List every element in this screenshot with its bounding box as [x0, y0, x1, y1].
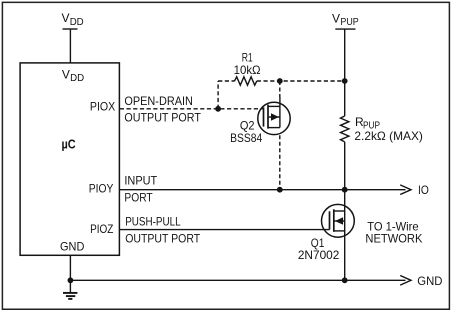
svg-text:DD: DD — [70, 17, 84, 28]
R1 value labels — [234, 50, 261, 77]
TO 1-Wire NETWORK annotation — [365, 219, 422, 245]
svg-text:µC: µC — [62, 136, 77, 151]
svg-text:V: V — [62, 11, 70, 25]
svg-text:INPUT: INPUT — [124, 174, 157, 188]
svg-text:PIOX: PIOX — [90, 100, 115, 114]
svg-text:10kΩ: 10kΩ — [234, 63, 261, 77]
wire: VPUP rail from RPUP down to IO net — [344, 142, 346, 190]
svg-text:DD: DD — [70, 73, 84, 84]
RPUP value labels — [354, 115, 423, 143]
PUSH-PULL OUTPUT PORT annotation — [125, 215, 201, 246]
svg-text:PUSH-PULL: PUSH-PULL — [125, 215, 181, 229]
svg-text:PUP: PUP — [340, 17, 358, 28]
Q2 reference labels — [230, 118, 262, 145]
wire: PIOX open-drain dashed net to Q2 gate — [120, 108, 263, 110]
svg-text:GND: GND — [60, 239, 85, 253]
svg-text:GND: GND — [417, 274, 443, 288]
svg-text:BSS84: BSS84 — [230, 131, 262, 145]
svg-text:V: V — [62, 67, 70, 81]
wire: dashed R1 net (right of resistor) to VPUP rail — [257, 80, 345, 82]
VDD supply symbol — [63, 29, 78, 63]
VPUP supply symbol — [335, 29, 355, 116]
VPUP label — [332, 11, 359, 28]
Q1 reference labels — [298, 236, 340, 262]
node: R1 / VPUP rail junction — [342, 78, 348, 84]
INPUT PORT annotation — [124, 174, 157, 205]
wire: dashed R1 net (left of resistor) — [218, 80, 234, 82]
wire: Q1 drain from IO net / source to GND net — [344, 190, 346, 281]
node: Q2 drain / IO junction — [277, 187, 283, 193]
microcontroller µC block — [20, 63, 119, 255]
svg-text:OUTPUT PORT: OUTPUT PORT — [125, 232, 201, 246]
transistor Q2 (BSS84 p-channel MOSFET) — [258, 97, 290, 135]
node: PIOX / riser junction — [215, 106, 221, 112]
wire: dashed Q2 source lead (up to R1 net) — [279, 81, 281, 97]
svg-text:OPEN-DRAIN: OPEN-DRAIN — [124, 94, 192, 108]
svg-text:PIOZ: PIOZ — [90, 222, 113, 236]
svg-text:IO: IO — [418, 183, 429, 197]
OPEN-DRAIN OUTPUT PORT annotation — [124, 94, 201, 125]
resistor R1 — [235, 77, 257, 85]
wire: PIOZ push-pull net to Q1 gate — [120, 229, 330, 231]
svg-text:PORT: PORT — [124, 191, 153, 205]
ground symbol — [63, 280, 77, 299]
node: VPUP rail / IO junction — [342, 187, 348, 193]
svg-text:2N7002: 2N7002 — [298, 248, 340, 262]
svg-text:OUTPUT PORT: OUTPUT PORT — [124, 111, 201, 125]
wire: µC GND pin lead — [69, 255, 71, 280]
wire: GND net with arrow — [70, 276, 411, 286]
node: R1 / Q2 source junction — [277, 78, 283, 84]
svg-text:2.2kΩ (MAX): 2.2kΩ (MAX) — [354, 129, 423, 143]
svg-text:PIOY: PIOY — [89, 182, 114, 196]
VDD label (top) — [62, 11, 84, 28]
pin VDD label (inside box) — [62, 67, 84, 84]
node: µC GND / ground junction — [68, 277, 74, 283]
wire: dashed Q2 drain lead down to IO net — [279, 135, 281, 190]
transistor Q1 (2N7002 n-channel MOSFET) — [322, 204, 355, 237]
resistor RPUP — [341, 116, 349, 142]
node: Q1 source / GND junction — [342, 277, 348, 283]
svg-text:NETWORK: NETWORK — [365, 231, 422, 245]
svg-text:V: V — [332, 11, 340, 25]
wire: PIOY IO net with arrow — [120, 185, 411, 195]
wire: dashed riser from PIOX net up to R1 — [217, 81, 219, 109]
